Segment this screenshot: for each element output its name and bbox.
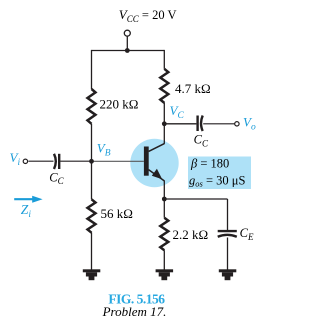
svg-text:220 kΩ: 220 kΩ <box>100 96 139 111</box>
ground (right, under CE) <box>219 269 237 280</box>
wire: RE bottom to ground <box>163 250 165 270</box>
collector lead <box>149 144 165 152</box>
wire: output cap to Vo terminal <box>203 123 234 125</box>
transistor Q1 <box>144 144 165 181</box>
svg-text:β = 180: β = 180 <box>190 156 229 170</box>
wire: VC node to output cap <box>164 123 196 125</box>
wire: top rail down to R1 <box>91 50 93 89</box>
svg-text:Problem 17.: Problem 17. <box>102 304 167 319</box>
wire: R1 bottom to VB node and down to R2 <box>91 124 93 200</box>
terminal Vo <box>235 122 239 126</box>
svg-text:56 kΩ: 56 kΩ <box>101 206 133 221</box>
wire: top rail <box>92 50 165 52</box>
wire: top rail down to RC <box>163 50 165 69</box>
emitter lead <box>149 170 165 181</box>
resistor RE 2.2 kOhm <box>160 218 208 251</box>
wire: Vi terminal to input cap <box>28 160 53 162</box>
Zi arrow <box>14 196 42 220</box>
wire: emitter down to RE <box>163 181 165 218</box>
wire: R2 bottom to ground <box>91 233 93 270</box>
Vcc terminal <box>124 30 130 36</box>
resistor RC 4.7 kOhm <box>160 69 210 103</box>
ground (left, under R2) <box>83 269 101 280</box>
resistor R2 56 kOhm <box>88 199 133 232</box>
wire: Vcc terminal to top rail <box>126 36 128 50</box>
node: top rail junction <box>125 48 130 53</box>
node VC <box>162 121 167 126</box>
svg-text:4.7 kΩ: 4.7 kΩ <box>175 81 211 96</box>
wire: base lead (VB to transistor base) <box>92 160 144 162</box>
ground (middle, under RE) <box>156 269 174 280</box>
capacitor CC (output coupling) <box>194 116 209 149</box>
wire: CE to ground <box>227 238 229 270</box>
transistor highlight circle <box>130 139 178 187</box>
wire: down to CE <box>227 199 229 230</box>
parameter box (beta = 180, gos = 30 uS) <box>188 156 251 189</box>
terminal Vi <box>23 159 27 163</box>
capacitor CC (input coupling) <box>49 154 64 186</box>
node VB <box>89 159 94 164</box>
resistor R1 220 kOhm <box>88 89 139 124</box>
capacitor CE (emitter bypass) <box>218 226 254 242</box>
wire: emitter node to CE branch <box>164 198 227 200</box>
wire: input cap to VB node <box>60 160 91 162</box>
svg-text:2.2 kΩ: 2.2 kΩ <box>173 227 209 242</box>
emitter arrowhead <box>152 169 162 179</box>
base bar <box>144 147 149 176</box>
node: emitter junction <box>162 197 167 202</box>
wire: RC bottom to collector <box>163 103 165 144</box>
